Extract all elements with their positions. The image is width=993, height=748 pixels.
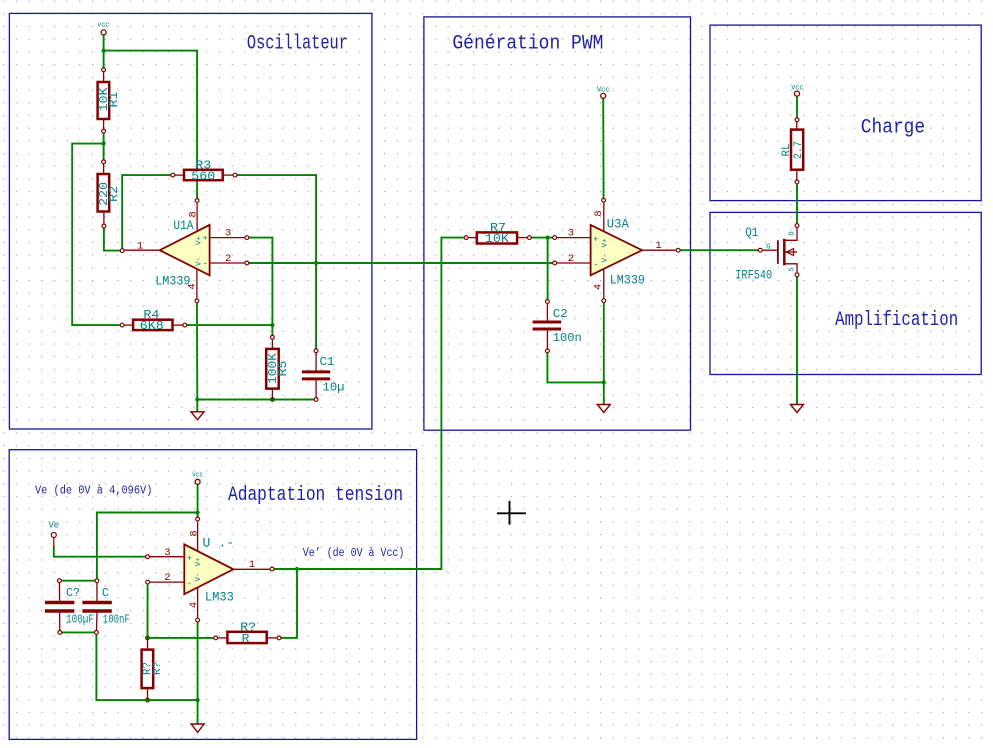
wire vcc to U pin8 [197,484,199,519]
pin R1 top [102,68,106,72]
svg-text:V+: V+ [195,557,203,567]
pin C? bottom [58,631,62,635]
node R7 pin3 C2 [546,236,550,240]
resistor R? vertical [142,638,164,700]
wire R3 left to U1A output [122,175,173,251]
wire vcc node to C top [97,513,198,581]
node R4 R5 pin3 [270,323,274,327]
svg-text:U1A: U1A [173,218,193,233]
svg-text:C1: C1 [320,355,335,369]
svg-text:S: S [789,267,797,271]
transistor Q1 [735,225,797,282]
capacitor C1 [302,351,345,400]
wire ground bus oscillator [198,399,317,401]
svg-text:8: 8 [188,211,200,217]
pin Q1 gate [758,248,762,252]
pin U3A out [676,248,680,252]
pin Ve [51,533,56,538]
ground PWM [597,405,610,413]
pin R2 bottom [102,224,106,228]
pin R7 right [528,236,532,240]
node R5 bottom [270,397,274,401]
svg-text:6K8: 6K8 [140,319,164,333]
wire U output to R7 left [272,238,466,569]
svg-text:100nF: 100nF [103,612,130,626]
power vcc charge [791,84,803,96]
wire U pin4 to ground [197,620,199,724]
svg-text:+: + [187,554,192,564]
box Generation PWM [424,17,691,430]
power vcc adaptation [192,471,203,484]
pin C2 top [546,300,550,304]
svg-text:560: 560 [191,169,215,183]
wire R7 right to U3A pin3 [529,237,554,239]
resistor R4 [122,308,185,333]
svg-text:R5: R5 [276,361,290,377]
resistor R3 [173,158,235,183]
svg-text:LM339: LM339 [610,272,645,287]
wire Q1 source to ground [796,275,798,405]
wire C? top to C top [59,580,97,582]
pin RL bottom [795,180,799,184]
node pin2 feedback [145,636,149,640]
resistor R5 [266,337,290,399]
wire U1A pin2 to U3A pin2 [247,262,555,264]
box Charge [710,25,981,201]
wire R1 bottom to R2 top [103,131,105,162]
node vcc adaptation [196,510,200,514]
svg-text:1: 1 [249,559,255,571]
pin C? top [58,579,62,583]
svg-text:Oscillateur: Oscillateur [247,32,348,55]
svg-text:-: - [593,260,598,270]
resistor R2 [97,162,121,226]
box Amplification [710,212,981,374]
power vcc PWM [597,86,610,98]
svg-text:1: 1 [655,240,661,252]
svg-text:U3A: U3A [607,217,629,232]
pin R1 bottom [102,129,106,133]
svg-text:R1: R1 [107,91,121,107]
svg-text:Vcc: Vcc [597,86,610,94]
svg-text:V+: V+ [195,236,203,246]
pin U 2 [146,580,150,584]
svg-text:Charge: Charge [861,116,925,139]
svg-text:C: C [102,586,109,600]
svg-text:8: 8 [593,210,605,216]
svg-text:-: - [187,579,192,589]
power vcc oscillator [97,21,109,35]
capacitor C? [45,581,94,633]
svg-text:Ve (de 0V à 4,096V): Ve (de 0V à 4,096V) [35,485,152,498]
svg-text:10µ: 10µ [323,381,345,395]
box Oscillateur [9,13,372,429]
svg-text:Génération PWM: Génération PWM [452,32,603,55]
resistor RL [781,120,805,182]
wire R3 right to pin2 net [235,175,316,263]
op-amp U3A [557,203,676,299]
node adaptation ground [196,698,200,702]
wire C2 bottom to ground bus [547,351,603,383]
wire R1/R2 node to R4 left [72,144,122,326]
pin R5 top [271,335,275,339]
pin Q1 source [795,273,799,277]
svg-text:Vcc: Vcc [791,84,803,92]
pin U3A 2 [553,261,557,265]
svg-text:U: U [203,535,211,550]
svg-text:1: 1 [137,240,143,252]
node Ve label [49,521,60,531]
svg-text:C?: C? [66,586,80,600]
svg-text:G: G [766,244,770,252]
wire U3A pin4 to ground [603,301,605,405]
pin R5 bottom [271,398,275,402]
pin U1A 8 [195,199,199,203]
svg-text:IRF540: IRF540 [735,267,772,282]
ground amplification [791,405,804,413]
wire pin2 node to R? left [148,637,216,639]
svg-text:10K: 10K [485,232,510,246]
wire pin3 node to C2 top [547,238,549,302]
annotation Ve input range [35,485,152,498]
wire Ve pin to U pin3 [54,546,148,557]
svg-text:2: 2 [164,572,170,584]
pin R3 right [233,173,237,177]
pin C1 top [314,349,318,353]
resistor R1 [97,70,121,131]
wire R4 right to R5 node [185,324,273,326]
svg-text:LM339: LM339 [155,273,190,288]
svg-text:Ve: Ve [49,521,60,531]
svg-text:2: 2 [225,253,231,265]
svg-text:8: 8 [189,530,201,536]
pin U3A 3 [553,236,557,240]
svg-text:LM33: LM33 [205,590,234,605]
node R1 R2 [102,142,106,146]
pin U 4 [196,618,200,622]
svg-text:+: + [593,235,598,245]
pin U out [270,567,274,571]
pin R? right [277,636,281,640]
pin R4 right [183,323,187,327]
svg-text:2.7: 2.7 [793,141,805,159]
ground adaptation [191,724,204,732]
svg-text:4: 4 [188,602,200,608]
node vcc R1 [102,49,106,53]
wire pin2 net to C1 top [315,263,317,351]
annotation Ve' output range [303,547,405,560]
svg-text:RL: RL [781,144,793,157]
svg-text:3: 3 [225,227,231,239]
wire U1A pin3 to R4/R5 node [247,238,273,338]
op-amp U adaptation [150,521,270,618]
svg-text:Q1: Q1 [745,225,758,240]
svg-text:R2: R2 [107,186,121,202]
pin C1 bottom [314,398,318,402]
pin R2 top [102,160,106,164]
pin RL top [795,118,799,122]
wire R2 bottom to U1A output [104,226,122,251]
wire U3A output to Q1 gate [678,249,760,251]
node PWM ground [602,380,606,384]
svg-text:vcc: vcc [97,21,109,29]
svg-text:4: 4 [593,284,605,290]
cursor cross [497,501,526,525]
svg-text:Amplification: Amplification [835,309,958,332]
svg-text:D: D [789,231,797,235]
pin U1A 3 [245,236,249,240]
pin U 8 [196,517,200,521]
svg-text:-: - [203,259,208,269]
svg-text:R?: R? [152,662,164,675]
wire RL bottom to Q1 drain [796,182,798,226]
svg-text:100µF: 100µF [66,612,94,626]
svg-text:3: 3 [164,547,170,559]
svg-text:+: + [203,234,208,244]
pin Q1 drain [795,224,799,228]
svg-text:R: R [242,632,250,646]
pin U3A 8 [602,198,606,202]
resistor R? feedback [216,620,279,645]
svg-text:V-: V- [601,253,609,262]
svg-text:3: 3 [568,227,574,239]
pin C bottom [95,631,99,635]
svg-text:100n: 100n [553,331,582,345]
wire U1A pin4 to ground [196,301,198,412]
wire C? bottom to C bottom [60,631,97,633]
svg-text:Adaptation tension: Adaptation tension [228,484,403,507]
node R? bottom ground [145,698,149,702]
wire C bottom to ground bus [96,632,197,700]
svg-text:vcc: vcc [192,471,203,479]
resistor R7 [466,221,529,246]
pin R? left [214,636,218,640]
svg-text:4: 4 [187,283,199,289]
svg-text:V-: V- [195,257,203,266]
svg-text:.-: .- [219,535,235,550]
capacitor C2 [533,302,582,351]
pin U 3 [146,555,150,559]
svg-text:2: 2 [568,253,574,265]
wire vcc to RL top [796,96,798,120]
pin R? vertical top [146,636,150,640]
capacitor C [82,581,129,633]
svg-text:Ve’ (de 0V à Vcc): Ve’ (de 0V à Vcc) [303,547,405,560]
pin R4 left [120,323,124,327]
wire vcc to R1 top [103,35,105,70]
pin C2 bottom [546,349,550,353]
pin R3 left [171,173,175,177]
pin C top [95,579,99,583]
wire vcc to U3A pin8 [602,98,604,200]
pin R? vertical bottom [146,698,150,702]
node R3 pin2 [314,261,318,265]
pin U1A out [120,249,124,253]
svg-text:V+: V+ [601,238,609,248]
wire vcc node to U1A pin8 [104,51,198,201]
svg-text:C2: C2 [553,307,568,321]
pin U1A 4 [195,299,199,303]
pin R7 left [464,236,468,240]
pin U1A 2 [245,261,249,265]
ground oscillator [191,412,204,420]
pin U3A 4 [602,299,606,303]
node oscillator ground [195,397,199,401]
node output adaptation [295,567,299,571]
op-amp U1A [125,203,245,299]
box Adaptation tension [9,450,416,740]
wire U pin2 down [147,582,149,638]
svg-text:V-: V- [195,572,203,581]
wire R? right to output node [279,569,297,638]
